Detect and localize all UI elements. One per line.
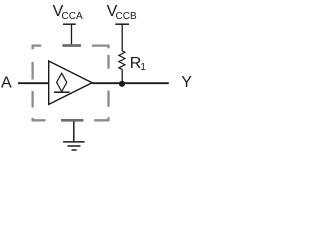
svg-text:CCB: CCB xyxy=(116,11,137,22)
package top-middle dash at VCCA pin xyxy=(62,44,81,47)
wire: resistor bottom to output node xyxy=(121,69,123,83)
ground (stem + three bars) xyxy=(63,122,85,151)
package outline top edge (dashed) xyxy=(32,45,110,49)
net label VCCA xyxy=(53,3,83,22)
open-drain output symbol (diamond with bar) xyxy=(54,73,70,92)
svg-text:Y: Y xyxy=(181,74,192,91)
package outline right edge (dashed) xyxy=(94,55,109,121)
wire: buffer output to Y xyxy=(92,82,169,84)
package outline left edge (dashed) xyxy=(32,62,46,121)
junction node (dot) xyxy=(119,81,125,87)
resistor R1 (zigzag) xyxy=(119,51,125,70)
net label VCCB xyxy=(107,3,137,22)
wire: A input to buffer xyxy=(18,82,49,84)
label R1 xyxy=(130,55,147,73)
supply terminal VCCB (bar + stem to resistor) xyxy=(115,24,129,51)
svg-text:CCA: CCA xyxy=(62,11,83,22)
svg-text:1: 1 xyxy=(140,62,146,73)
svg-text:A: A xyxy=(1,75,12,92)
package bottom-middle dash at GND pin xyxy=(61,119,83,122)
buffer U1 (triangle) xyxy=(49,61,92,104)
supply terminal VCCA (bar + stem to package edge) xyxy=(63,24,76,45)
